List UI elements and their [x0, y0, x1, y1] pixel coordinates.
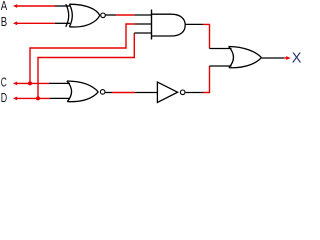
junction D [36, 96, 40, 100]
input pin arrow D [13, 97, 17, 101]
not output bubble [180, 90, 185, 95]
and gate U2 input rail [151, 10, 153, 40]
wire C branch: junction to AND middle input [30, 24, 135, 83]
and gate U2 body [152, 14, 186, 36]
wire NOT out red, up to OR bottom input [203, 66, 210, 93]
nor output bubble [100, 90, 105, 95]
nor gate U3 (C NOR D) [67, 81, 98, 102]
svg-text:X: X [292, 51, 302, 67]
svg-text:B: B [1, 15, 7, 29]
wire D black into NOR [50, 97, 69, 99]
wire D branch: junction to AND bottom input [38, 33, 134, 98]
wire OR bottom input black [210, 65, 232, 67]
junction C [28, 81, 32, 85]
wire C branch black stub to AND rail [135, 23, 152, 25]
input pin arrow A [13, 4, 17, 8]
wire A red [17, 5, 56, 7]
not gate U4 triangle [157, 82, 177, 103]
input pin arrow B [13, 21, 17, 25]
wire OR top input black [210, 48, 232, 50]
wire NOR out red [112, 92, 135, 94]
wire XNOR out red [116, 14, 134, 16]
wire NOR out black [105, 92, 112, 94]
input pin arrow C [13, 82, 17, 86]
wire D branch black stub to AND rail [134, 32, 151, 34]
wire B black into XNOR [55, 22, 70, 24]
wire XNOR out black [106, 14, 117, 16]
wire AND out black [185, 23, 203, 25]
wire A black into XNOR [55, 5, 70, 7]
svg-text:A: A [1, 0, 8, 13]
wire XNOR out black to AND rail [134, 14, 151, 16]
output pin arrow X [286, 56, 290, 60]
or gate U5 [229, 47, 262, 68]
wire OR out black [261, 57, 284, 59]
wire AND out red, down to OR top input [203, 24, 210, 48]
xnor gate U1 (A XNOR B) [66, 4, 100, 27]
wire C red [17, 82, 50, 84]
svg-text:C: C [1, 76, 7, 90]
wire B red [17, 22, 56, 24]
xnor output bubble [101, 13, 106, 18]
wire into NOT black [135, 92, 157, 94]
svg-text:D: D [1, 91, 7, 105]
wire NOT out black [186, 92, 203, 94]
wire D red [17, 97, 51, 99]
wire C black into NOR [49, 82, 70, 84]
wire OR out red stub [284, 57, 287, 59]
